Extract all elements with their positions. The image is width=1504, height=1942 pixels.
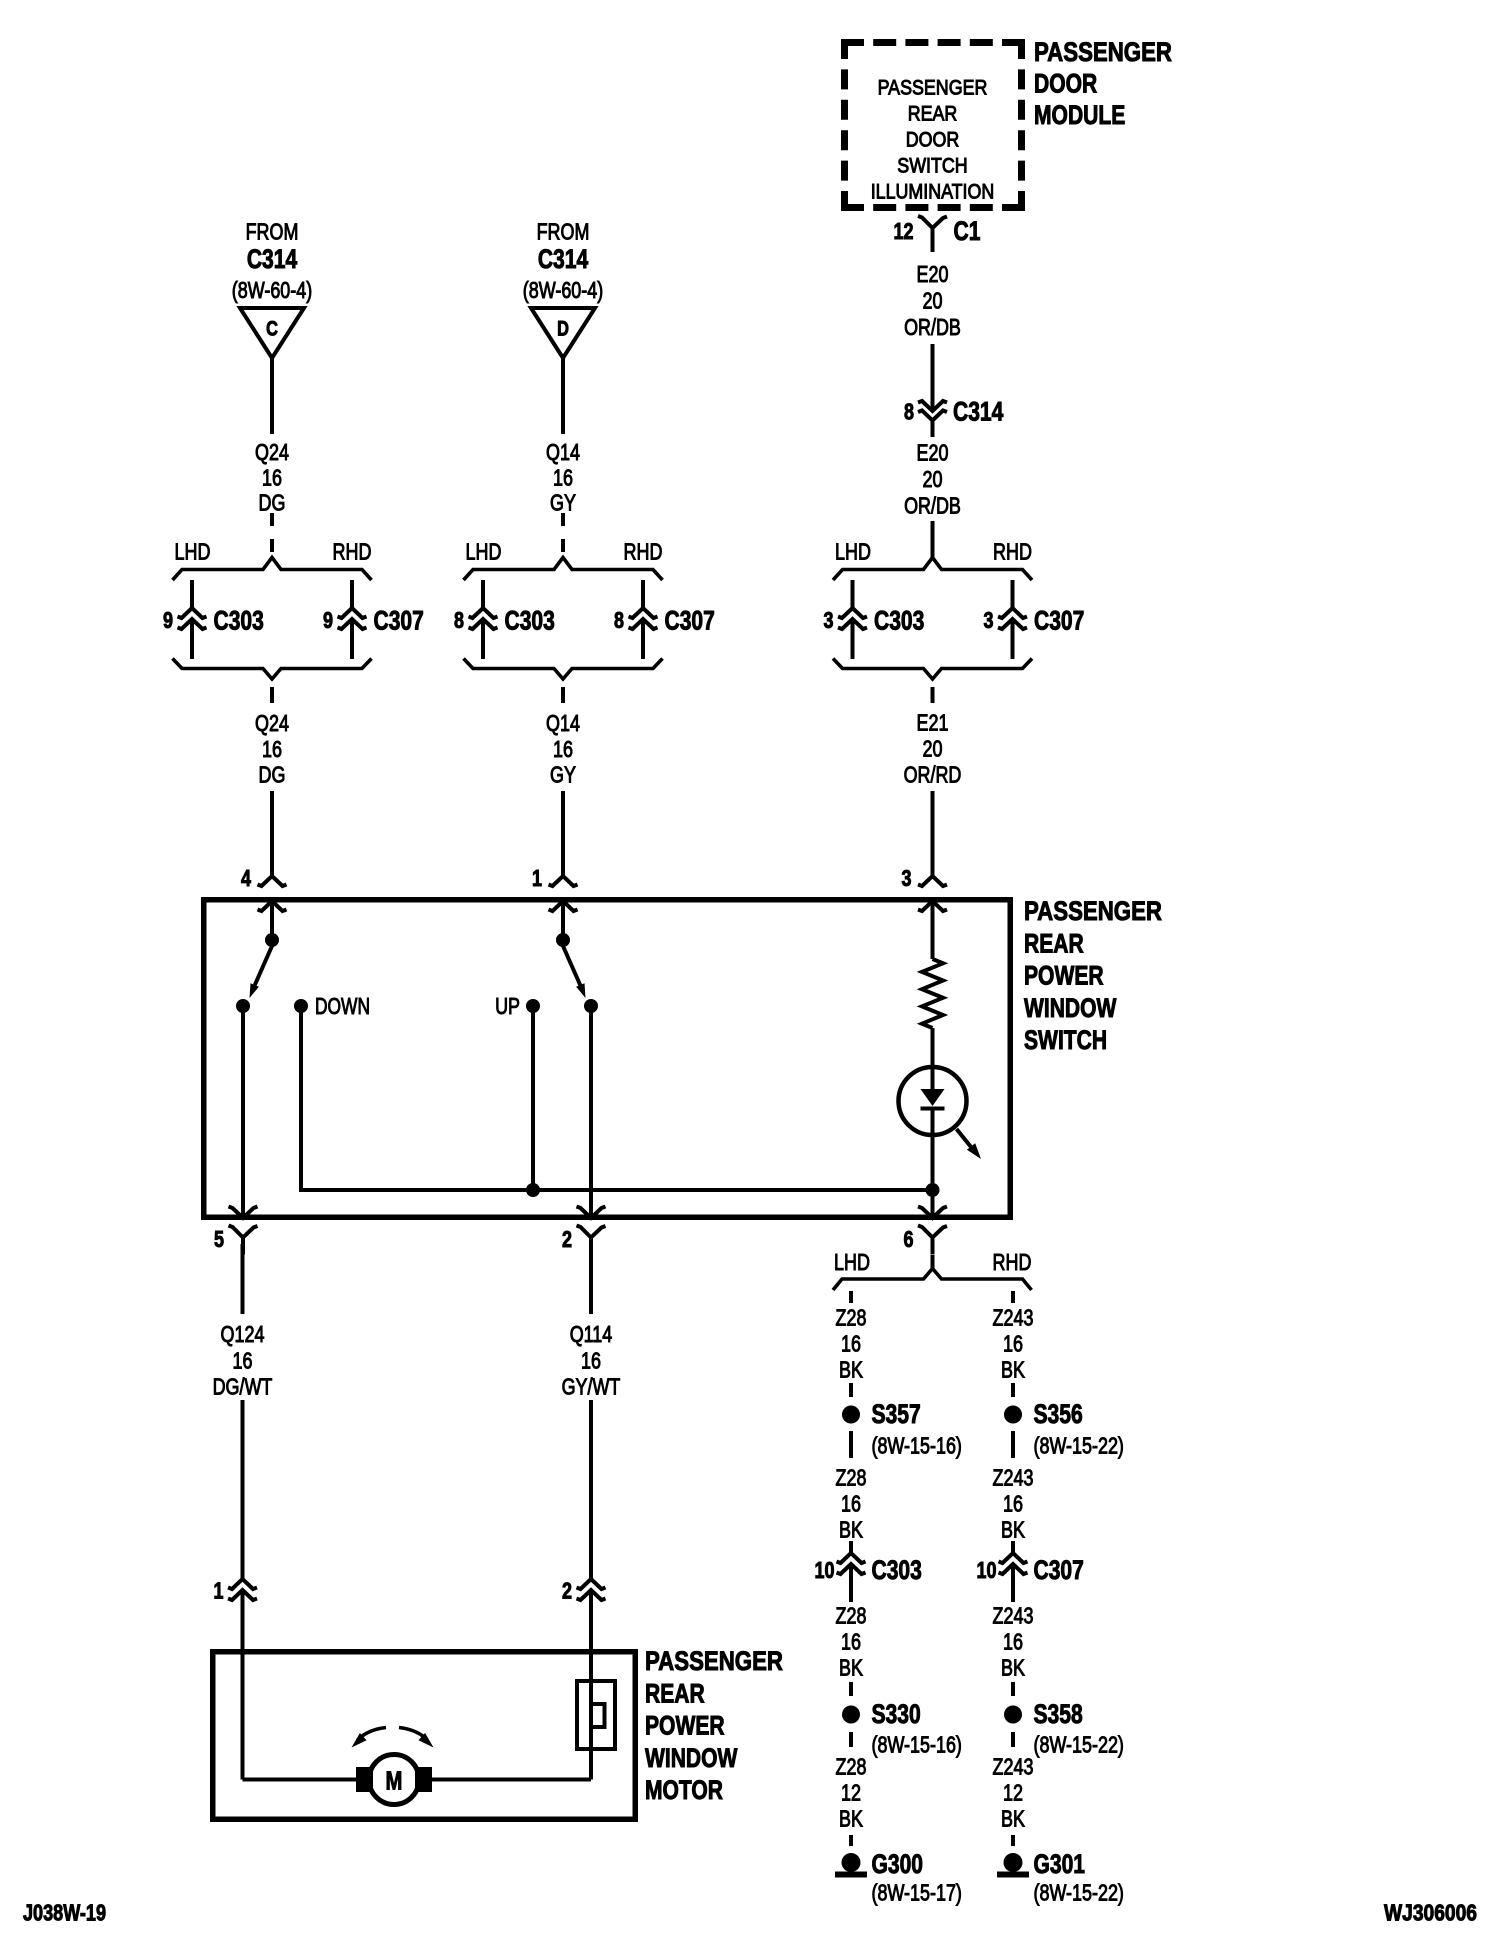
switch pin 5 exit arrow (inside box) bbox=[229, 1207, 258, 1219]
wire to switch pin 1 bbox=[561, 791, 565, 876]
svg-text:OR/DB: OR/DB bbox=[904, 493, 961, 519]
svg-text:Z243: Z243 bbox=[993, 1305, 1034, 1331]
split brace (top) bbox=[833, 558, 1032, 581]
svg-text:(8W-60-4): (8W-60-4) bbox=[523, 277, 603, 303]
switch pin 5 connector (Y below box) bbox=[229, 1226, 258, 1238]
UP contact node bbox=[526, 999, 540, 1013]
svg-text:C314: C314 bbox=[247, 244, 297, 274]
dashed wire below splice bbox=[1011, 1732, 1015, 1747]
junction node UP/common bbox=[526, 1183, 540, 1197]
svg-text:LHD: LHD bbox=[466, 539, 502, 565]
wire from C314 to LHD/RHD split bbox=[931, 521, 935, 558]
svg-text:3: 3 bbox=[824, 607, 834, 633]
dashed wire to splice bbox=[849, 1682, 853, 1696]
svg-text:C307: C307 bbox=[1034, 606, 1084, 636]
wire LED to common bbox=[931, 1108, 935, 1217]
svg-text:(8W-15-16): (8W-15-16) bbox=[872, 1433, 962, 1459]
svg-text:DOOR: DOOR bbox=[1034, 69, 1097, 99]
svg-text:BK: BK bbox=[1001, 1517, 1025, 1543]
motor rotation arrow left bbox=[358, 1728, 387, 1741]
svg-text:PASSENGER: PASSENGER bbox=[1024, 896, 1162, 926]
svg-text:RHD: RHD bbox=[993, 539, 1032, 565]
svg-text:20: 20 bbox=[923, 288, 943, 314]
svg-text:G301: G301 bbox=[1034, 1849, 1086, 1879]
RHD branch wire bbox=[641, 580, 645, 608]
svg-text:ILLUMINATION: ILLUMINATION bbox=[871, 181, 995, 204]
svg-text:WINDOW: WINDOW bbox=[645, 1743, 738, 1773]
svg-text:Z28: Z28 bbox=[836, 1305, 867, 1331]
off-page connector triangle D bbox=[531, 308, 595, 358]
motor right terminal bbox=[415, 1767, 432, 1792]
svg-text:9: 9 bbox=[163, 607, 173, 633]
svg-text:1: 1 bbox=[532, 865, 542, 891]
wire to switch pin 3 bbox=[931, 791, 935, 876]
svg-text:12: 12 bbox=[841, 1780, 861, 1806]
svg-text:Q24: Q24 bbox=[255, 439, 289, 465]
connector C1 (Y symbol at module pin 12) bbox=[918, 216, 947, 228]
svg-text:D: D bbox=[557, 318, 569, 341]
motor rotation arrow right bbox=[399, 1728, 428, 1741]
window regulator connector tab bbox=[592, 1704, 605, 1727]
svg-text:RHD: RHD bbox=[624, 539, 663, 565]
svg-text:16: 16 bbox=[1003, 1331, 1023, 1357]
splice S358 bbox=[1004, 1706, 1022, 1724]
svg-text:C307: C307 bbox=[374, 606, 424, 636]
dashed wire to splice bbox=[1011, 1682, 1015, 1696]
svg-text:(8W-15-22): (8W-15-22) bbox=[1034, 1880, 1124, 1906]
svg-text:WJ306006: WJ306006 bbox=[1384, 1900, 1477, 1926]
svg-text:16: 16 bbox=[233, 1348, 253, 1374]
svg-text:MOTOR: MOTOR bbox=[645, 1775, 723, 1805]
svg-text:PASSENGER: PASSENGER bbox=[1034, 37, 1172, 67]
connector C307 (double chevron) bbox=[998, 608, 1027, 629]
svg-text:SWITCH: SWITCH bbox=[897, 155, 967, 178]
dashed wire to splice bbox=[1011, 1383, 1015, 1397]
svg-text:S356: S356 bbox=[1034, 1399, 1083, 1429]
svg-text:Q114: Q114 bbox=[570, 1321, 613, 1347]
svg-text:POWER: POWER bbox=[645, 1711, 725, 1741]
svg-text:C303: C303 bbox=[872, 1555, 922, 1585]
splice S357 bbox=[842, 1406, 860, 1424]
svg-text:12: 12 bbox=[894, 218, 914, 244]
switch contact node left bbox=[236, 999, 250, 1013]
wire into motor box bbox=[241, 1590, 245, 1780]
svg-text:10: 10 bbox=[977, 1557, 997, 1583]
switch arm (left, to DOWN contact) bbox=[254, 946, 273, 988]
wire into motor box bbox=[589, 1590, 593, 1780]
svg-text:DOOR: DOOR bbox=[906, 129, 960, 152]
split brace (top) bbox=[173, 558, 372, 581]
dashed wire below merge bbox=[931, 687, 935, 703]
svg-text:C307: C307 bbox=[1034, 1555, 1084, 1585]
LHD branch wire below C303 bbox=[190, 620, 194, 659]
svg-text:S330: S330 bbox=[872, 1699, 921, 1729]
svg-text:(8W-15-22): (8W-15-22) bbox=[1034, 1433, 1124, 1459]
switch pin 6 connector (Y below box) bbox=[918, 1226, 947, 1238]
switch pole node (pin 1) bbox=[556, 933, 570, 947]
svg-text:16: 16 bbox=[841, 1491, 861, 1517]
ground G300 bbox=[842, 1853, 861, 1872]
svg-text:16: 16 bbox=[1003, 1629, 1023, 1655]
RHD branch dashed stub bbox=[1011, 1291, 1015, 1303]
wire motor left horizontal bbox=[243, 1778, 357, 1782]
svg-text:POWER: POWER bbox=[1024, 961, 1104, 991]
wire pin 3 to resistor bbox=[931, 901, 935, 959]
svg-text:C1: C1 bbox=[954, 216, 981, 246]
svg-text:RHD: RHD bbox=[333, 539, 372, 565]
connector C303 (double chevron) bbox=[838, 608, 867, 629]
RHD branch wire bbox=[350, 580, 354, 608]
svg-text:8: 8 bbox=[454, 607, 464, 633]
LED cathode bar bbox=[921, 1107, 945, 1111]
connector C307 (double chevron) bbox=[999, 1553, 1028, 1574]
svg-text:16: 16 bbox=[581, 1348, 601, 1374]
splice S330 bbox=[842, 1706, 860, 1724]
svg-text:Z28: Z28 bbox=[836, 1754, 867, 1780]
svg-text:M: M bbox=[386, 1766, 403, 1796]
svg-text:C314: C314 bbox=[953, 397, 1003, 427]
RHD branch wire below C307 bbox=[641, 620, 645, 659]
motor left terminal bbox=[356, 1767, 373, 1792]
wire contact to pin 2 bbox=[589, 1012, 593, 1217]
svg-text:C303: C303 bbox=[505, 606, 555, 636]
wire DOWN contact down bbox=[299, 1012, 303, 1192]
svg-text:Q14: Q14 bbox=[546, 710, 580, 736]
svg-text:5: 5 bbox=[214, 1226, 224, 1252]
svg-text:DG/WT: DG/WT bbox=[213, 1374, 273, 1400]
wire UP contact down bbox=[531, 1012, 535, 1190]
connector C303 (double chevron) bbox=[178, 608, 207, 629]
svg-text:16: 16 bbox=[1003, 1491, 1023, 1517]
svg-text:12: 12 bbox=[1003, 1780, 1023, 1806]
svg-text:16: 16 bbox=[841, 1629, 861, 1655]
split brace below pin 6 bbox=[833, 1269, 1032, 1291]
svg-text:BK: BK bbox=[839, 1357, 863, 1383]
svg-text:(8W-15-22): (8W-15-22) bbox=[1034, 1732, 1124, 1758]
svg-text:1: 1 bbox=[214, 1578, 224, 1604]
svg-text:C314: C314 bbox=[538, 244, 588, 274]
svg-text:OR/DB: OR/DB bbox=[904, 314, 961, 340]
svg-text:PASSENGER: PASSENGER bbox=[878, 77, 988, 100]
window regulator connector outline bbox=[577, 1681, 615, 1749]
wire to switch pin 4 bbox=[270, 791, 274, 876]
wire to C307 bbox=[1011, 1541, 1015, 1553]
connector C314 (double chevron) bbox=[918, 401, 947, 421]
svg-text:10: 10 bbox=[815, 1557, 835, 1583]
svg-text:DG: DG bbox=[259, 762, 286, 788]
svg-text:16: 16 bbox=[553, 465, 573, 491]
svg-text:E21: E21 bbox=[917, 710, 949, 736]
merge brace (bottom) bbox=[173, 659, 372, 680]
switch pin 2 connector (Y below box) bbox=[577, 1226, 606, 1238]
switch pole node (pin 4) bbox=[265, 933, 279, 947]
svg-text:DG: DG bbox=[259, 490, 286, 516]
switch pole wire pin 1 bbox=[561, 901, 565, 934]
dashed wire to ground bbox=[1011, 1835, 1015, 1846]
ground G301 bbox=[1004, 1853, 1023, 1872]
wire below C307 bbox=[1011, 1565, 1015, 1602]
svg-text:6: 6 bbox=[904, 1226, 914, 1252]
svg-text:3: 3 bbox=[984, 607, 994, 633]
wire below C303 bbox=[849, 1565, 853, 1602]
svg-text:BK: BK bbox=[839, 1655, 863, 1681]
off-page connector triangle C bbox=[240, 308, 304, 358]
motor pin 1 connector (double chevron) bbox=[228, 1579, 257, 1600]
svg-text:REAR: REAR bbox=[1024, 928, 1084, 958]
LED diode triangle bbox=[921, 1089, 945, 1106]
svg-text:BK: BK bbox=[839, 1806, 863, 1832]
wire resistor to LED bbox=[931, 1028, 935, 1090]
svg-text:Z28: Z28 bbox=[836, 1603, 867, 1629]
svg-text:16: 16 bbox=[262, 465, 282, 491]
svg-text:REAR: REAR bbox=[645, 1678, 705, 1708]
LHD branch dashed stub bbox=[849, 1291, 853, 1303]
svg-text:Q124: Q124 bbox=[221, 1321, 265, 1347]
connector C307 (double chevron) bbox=[629, 608, 658, 629]
svg-text:GY/WT: GY/WT bbox=[562, 1374, 621, 1400]
svg-text:BK: BK bbox=[839, 1517, 863, 1543]
svg-text:BK: BK bbox=[1001, 1655, 1025, 1681]
svg-text:8: 8 bbox=[614, 607, 624, 633]
motor box: passenger rear power window motor bbox=[213, 1652, 636, 1820]
LHD branch wire below C303 bbox=[481, 620, 485, 659]
svg-text:E20: E20 bbox=[917, 440, 949, 466]
svg-text:MODULE: MODULE bbox=[1034, 100, 1125, 130]
wire from triangle D down bbox=[561, 358, 565, 434]
svg-text:(8W-15-17): (8W-15-17) bbox=[872, 1880, 962, 1906]
LED emission arrow bbox=[957, 1129, 972, 1147]
svg-text:16: 16 bbox=[553, 736, 573, 762]
svg-text:16: 16 bbox=[841, 1331, 861, 1357]
DOWN contact node bbox=[294, 999, 308, 1013]
split brace (top) bbox=[464, 558, 663, 581]
connector C307 (double chevron) bbox=[338, 608, 367, 629]
common wire across switch bbox=[301, 1188, 933, 1192]
dashed wire below merge bbox=[561, 687, 565, 703]
dashed wire to splice bbox=[849, 1383, 853, 1397]
svg-text:4: 4 bbox=[241, 865, 251, 891]
wire from triangle C down bbox=[270, 358, 274, 434]
connector C303 (double chevron) bbox=[837, 1553, 866, 1574]
switch pin 4 connector (chevrons at box top) bbox=[258, 876, 287, 886]
wire switch pin to motor (upper) bbox=[241, 1244, 245, 1314]
wire pin 6 to split bbox=[931, 1255, 935, 1268]
RHD branch wire bbox=[1011, 580, 1015, 608]
svg-text:C303: C303 bbox=[874, 606, 924, 636]
svg-text:LHD: LHD bbox=[834, 1249, 870, 1275]
svg-text:OR/RD: OR/RD bbox=[904, 762, 962, 788]
svg-text:LHD: LHD bbox=[175, 539, 211, 565]
wire contact to pin 5 bbox=[241, 1012, 245, 1217]
svg-text:Z243: Z243 bbox=[993, 1754, 1034, 1780]
svg-text:WINDOW: WINDOW bbox=[1024, 993, 1117, 1023]
svg-text:Q14: Q14 bbox=[546, 439, 580, 465]
splice S356 bbox=[1004, 1406, 1022, 1424]
svg-text:2: 2 bbox=[562, 1578, 572, 1604]
svg-text:PASSENGER: PASSENGER bbox=[645, 1646, 783, 1676]
LHD branch wire below C303 bbox=[851, 620, 855, 659]
resistor (illumination dropping resistor) bbox=[922, 959, 943, 1028]
svg-text:8: 8 bbox=[904, 399, 914, 425]
svg-text:20: 20 bbox=[923, 736, 943, 762]
svg-text:GY: GY bbox=[550, 490, 576, 516]
switch contact node right bbox=[584, 999, 598, 1013]
svg-text:C: C bbox=[266, 318, 278, 341]
switch pin 1 connector (chevrons at box top) bbox=[549, 876, 578, 886]
svg-text:FROM: FROM bbox=[537, 219, 590, 245]
svg-text:2: 2 bbox=[562, 1226, 572, 1252]
LHD branch wire bbox=[851, 580, 855, 608]
wire from C1 to C314 bbox=[931, 344, 935, 411]
connector C303 (double chevron) bbox=[469, 608, 498, 629]
svg-text:REAR: REAR bbox=[908, 103, 958, 126]
LED circle bbox=[899, 1067, 967, 1135]
wire below splice bbox=[849, 1431, 853, 1458]
dashed wire below splice bbox=[849, 1732, 853, 1747]
svg-text:16: 16 bbox=[262, 736, 282, 762]
merge brace (bottom) bbox=[833, 659, 1032, 680]
svg-text:SWITCH: SWITCH bbox=[1024, 1025, 1107, 1055]
switch pole wire pin 4 bbox=[270, 901, 274, 934]
svg-text:BK: BK bbox=[1001, 1806, 1025, 1832]
svg-text:Z243: Z243 bbox=[993, 1603, 1034, 1629]
wire to C303 bbox=[849, 1541, 853, 1553]
svg-text:3: 3 bbox=[902, 865, 912, 891]
switch pin 6 exit arrow (inside box) bbox=[918, 1207, 947, 1219]
svg-text:J038W-19: J038W-19 bbox=[23, 1900, 106, 1926]
dashed wire below merge bbox=[270, 687, 274, 703]
RHD branch wire below C307 bbox=[1011, 620, 1015, 659]
switch box: passenger rear power window switch bbox=[204, 900, 1011, 1218]
motor pin 2 connector (double chevron) bbox=[577, 1579, 606, 1600]
svg-text:E20: E20 bbox=[917, 261, 949, 287]
svg-text:LHD: LHD bbox=[835, 539, 871, 565]
svg-text:S357: S357 bbox=[872, 1399, 921, 1429]
svg-text:Q24: Q24 bbox=[255, 710, 289, 736]
junction node LED/common bbox=[926, 1183, 940, 1197]
svg-text:(8W-15-16): (8W-15-16) bbox=[872, 1732, 962, 1758]
svg-text:FROM: FROM bbox=[246, 219, 299, 245]
dashed wire to ground bbox=[849, 1835, 853, 1846]
module box (dashed): passenger door module bbox=[841, 39, 1025, 211]
svg-text:(8W-60-4): (8W-60-4) bbox=[232, 277, 312, 303]
RHD branch wire below C307 bbox=[350, 620, 354, 659]
svg-text:Z28: Z28 bbox=[836, 1465, 867, 1491]
LHD branch wire bbox=[481, 580, 485, 608]
wire motor right horizontal bbox=[432, 1778, 591, 1782]
dashed wire into split bbox=[561, 513, 565, 526]
wire switch pin to motor (upper) bbox=[589, 1244, 593, 1314]
svg-text:RHD: RHD bbox=[993, 1249, 1032, 1275]
motor M1 (circle) bbox=[369, 1755, 419, 1805]
wire to motor connector bbox=[589, 1400, 593, 1579]
svg-text:9: 9 bbox=[323, 607, 333, 633]
dashed wire into split bbox=[270, 513, 274, 526]
svg-text:UP: UP bbox=[495, 993, 520, 1019]
wire below splice bbox=[1011, 1431, 1015, 1458]
svg-text:Z243: Z243 bbox=[993, 1465, 1034, 1491]
svg-text:G300: G300 bbox=[872, 1849, 924, 1879]
svg-text:BK: BK bbox=[1001, 1357, 1025, 1383]
switch pin 2 exit arrow (inside box) bbox=[577, 1207, 606, 1219]
switch pin 3 connector (chevrons at box top) bbox=[918, 876, 947, 886]
svg-text:S358: S358 bbox=[1034, 1699, 1083, 1729]
svg-text:GY: GY bbox=[550, 762, 576, 788]
svg-text:DOWN: DOWN bbox=[315, 993, 370, 1019]
svg-text:C307: C307 bbox=[665, 606, 715, 636]
svg-text:C303: C303 bbox=[214, 606, 264, 636]
switch arm (right, to UP contact) bbox=[563, 946, 582, 988]
merge brace (bottom) bbox=[464, 659, 663, 680]
LHD branch wire bbox=[190, 580, 194, 608]
svg-text:20: 20 bbox=[923, 466, 943, 492]
wire to motor connector bbox=[241, 1400, 245, 1579]
